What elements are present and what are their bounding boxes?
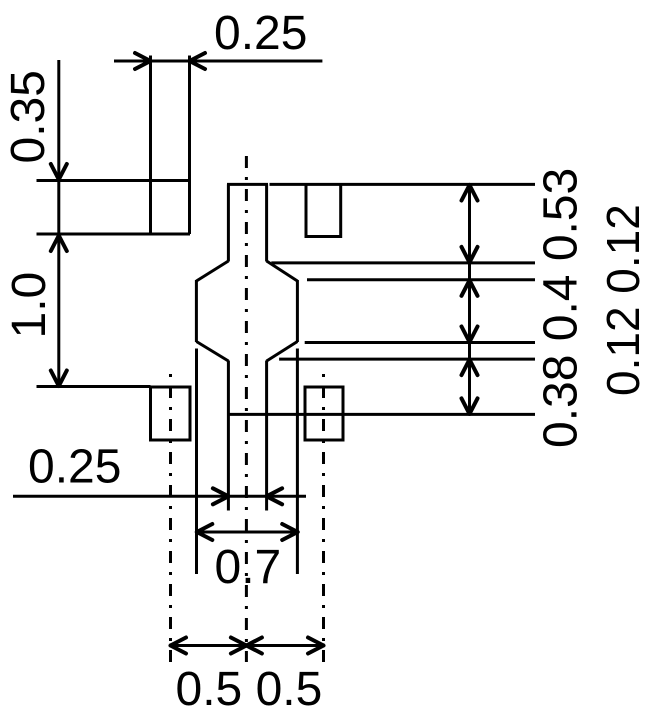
dimension label 0.5 0.5: [176, 663, 323, 716]
dimension labels 0.38 0.4 0.53 rotated: [535, 168, 588, 448]
svg-text:0.35: 0.35: [2, 70, 55, 163]
left pad rectangle: [151, 387, 191, 440]
arrowhead down at y=386: [51, 371, 67, 387]
dimension labels 0.12 0.12 rotated: [597, 204, 649, 396]
reference line y=359.1: [279, 358, 535, 361]
lead left edge lower segment: [227, 361, 230, 511]
arrowhead left at centerline: [246, 638, 262, 654]
svg-text:0.25: 0.25: [214, 7, 307, 60]
left pad centerline dash-dot: [169, 374, 172, 662]
reference line y=342.5: [305, 341, 535, 344]
lead left edge upper segment: [227, 184, 230, 261]
arrowhead down at y=180: [51, 164, 67, 180]
extension line at y=180.5: [37, 179, 191, 182]
lead bulge left edge: [195, 280, 198, 342]
arrowhead up at y=279.8: [462, 280, 478, 296]
arrowhead up at y=359.1: [462, 360, 478, 376]
svg-text:0.12 0.12: 0.12 0.12: [597, 204, 649, 396]
extension line at y=386.5 bottom of 1.0: [37, 385, 151, 388]
arrowhead left at x=196.8: [197, 524, 213, 540]
arrowhead down at y=342.5: [462, 327, 478, 343]
svg-text:0.25: 0.25: [28, 441, 121, 494]
extension line at y=234: [37, 233, 191, 236]
dimension label 0.35 rotated: [2, 70, 55, 163]
svg-text:0.5 0.5: 0.5 0.5: [176, 663, 323, 716]
lead bulge upper-left slant: [196, 261, 228, 281]
dimension line 0.7: [197, 531, 298, 534]
reference line y=279.8: [307, 278, 535, 281]
bulge left extension line: [195, 349, 198, 575]
arrowhead right at top-left rect left edge: [135, 53, 151, 69]
dimension label 0.7: [215, 541, 282, 594]
reference line y=262.9: [271, 261, 535, 264]
top-left terminal rectangle left edge: [149, 56, 152, 235]
lead right edge upper segment: [265, 184, 268, 261]
right pad rectangle: [305, 387, 343, 440]
lead right edge lower segment: [265, 361, 268, 511]
reference line A y=184.4: [270, 183, 536, 186]
arrowhead right at lead left edge: [213, 488, 229, 504]
svg-text:1.0: 1.0: [3, 272, 56, 339]
arrowhead down at y=262.9: [462, 247, 478, 263]
hanging pad rectangle top right: [306, 184, 341, 236]
dimension line 0.25 top: [114, 60, 322, 63]
lead top edge: [227, 183, 268, 186]
lead bulge lower-left slant: [196, 342, 228, 362]
dimension line 0.25 left: [13, 495, 306, 498]
arrowhead right at x=297.7: [282, 524, 298, 540]
arrowhead left at top-left rect right edge: [190, 53, 206, 69]
dimension label 0.25 left: [28, 441, 121, 494]
arrowhead up at y=184.4: [462, 185, 478, 201]
arrowhead left at x=170.5: [171, 638, 187, 654]
svg-text:0.38 0.4 0.53: 0.38 0.4 0.53: [535, 168, 588, 448]
svg-text:0.7: 0.7: [215, 541, 282, 594]
arrowhead right at x=323.5: [308, 638, 324, 654]
lead bulge upper-right slant: [267, 261, 298, 281]
arrowhead left at lead right edge: [267, 488, 283, 504]
right pad centerline dash-dot: [322, 374, 325, 662]
lead bulge right edge: [296, 280, 299, 342]
right dimension line vertical: [468, 184, 471, 414]
lead bulge lower-right slant: [267, 342, 298, 362]
dimension label 1.0 rotated: [3, 272, 56, 339]
dimension label 0.25 top: [214, 7, 307, 60]
arrowhead up at y=235.5: [51, 236, 67, 252]
arrowhead right at centerline: [231, 638, 247, 654]
bulge right extension line: [296, 349, 299, 575]
left dimension line vertical: [57, 60, 60, 387]
top-left terminal rectangle right edge: [188, 56, 191, 235]
dimension line 0.5 0.5: [171, 644, 324, 647]
reference line B y=414.4: [228, 413, 535, 416]
lead centerline dash-dot: [245, 156, 248, 662]
arrowhead down at y=414.4: [462, 398, 478, 414]
